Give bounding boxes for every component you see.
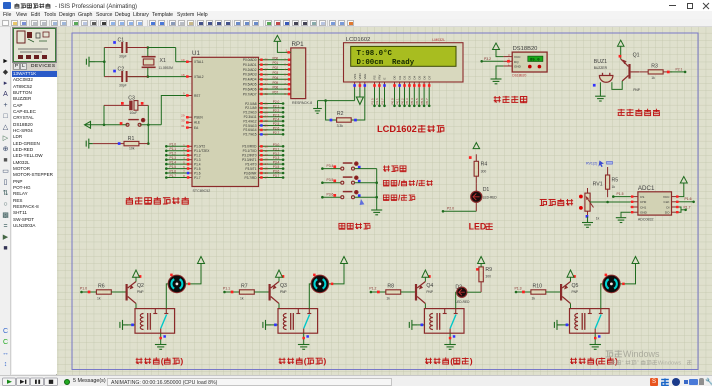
U1 P2 pins with net labels [259, 100, 285, 136]
button (reset) [126, 118, 145, 126]
svg-text:16: 16 [265, 171, 269, 175]
svg-text:12: 12 [265, 153, 269, 157]
svg-text:P1.3: P1.3 [170, 156, 177, 160]
svg-text:P2.5: P2.5 [273, 122, 280, 126]
svg-text:24: 24 [265, 115, 269, 119]
svg-text:R2: R2 [337, 111, 344, 117]
relay RL4 [570, 309, 610, 334]
svg-text:1k: 1k [240, 297, 244, 301]
svg-text:RW: RW [378, 74, 382, 79]
crystal X1 [142, 57, 156, 68]
svg-text:): ) [180, 356, 183, 366]
svg-text:U1: U1 [192, 50, 200, 57]
svg-text:Q1: Q1 [633, 53, 640, 59]
svg-text:P03: P03 [273, 71, 279, 75]
label MCU minimal system [126, 197, 133, 204]
wire LCD control and data nets [370, 88, 430, 107]
wire net P1.3 [516, 291, 531, 293]
svg-text:P1.4: P1.4 [170, 161, 177, 165]
wire relay common to ground [160, 333, 162, 344]
wire ADC VCC to power [680, 190, 684, 197]
wire button to ground bus [355, 196, 377, 198]
ground terminal (relay coil) [263, 320, 271, 330]
probe label RV1(2) blue [586, 161, 613, 168]
ADC U2 ADC0832 [638, 192, 672, 215]
MCU U1 STC89C52 [192, 57, 259, 186]
svg-text:- ISIS Professional (Animating: - ISIS Professional (Animating) [55, 4, 137, 10]
wire base Q4 [401, 291, 415, 293]
svg-text:D4: D4 [413, 75, 417, 79]
svg-text:R5: R5 [612, 178, 619, 184]
wire collector Q4 to relay [424, 304, 426, 309]
svg-text:P07: P07 [273, 91, 279, 95]
svg-text:1k: 1k [386, 297, 390, 301]
wire button to ground bus [355, 168, 377, 170]
resistor R1 [115, 141, 148, 145]
svg-text:P2.0: P2.0 [273, 100, 280, 104]
svg-text:P0.4: P0.4 [410, 98, 414, 105]
svg-text:R9: R9 [485, 267, 492, 273]
wire ADC DI DO to net P1.7 [680, 207, 682, 212]
wire base Q3 [254, 291, 268, 293]
svg-text:85.0: 85.0 [530, 59, 540, 63]
svg-text:P3.3: P3.3 [273, 156, 280, 160]
svg-text:P3.6: P3.6 [327, 193, 334, 197]
ground (buttons) [371, 210, 382, 215]
svg-text:P2.0: P2.0 [447, 206, 454, 210]
svg-text:VCC: VCC [663, 195, 670, 199]
svg-text:11: 11 [265, 149, 268, 153]
power terminal (motor M2) [341, 257, 348, 268]
LCD pins [353, 82, 430, 88]
U1 P3 pins with net labels [259, 143, 285, 180]
svg-text:LED-RED: LED-RED [455, 300, 470, 304]
power terminal (Q5) [567, 270, 574, 277]
svg-text:P3.4: P3.4 [327, 164, 334, 168]
svg-text:10uF: 10uF [130, 111, 138, 115]
svg-text:P2.4/A12: P2.4/A12 [243, 119, 256, 123]
svg-text:LCD1602: LCD1602 [377, 124, 417, 134]
motor M2 [311, 275, 329, 293]
svg-text:P3.6/WR: P3.6/WR [244, 171, 257, 175]
wire LCD power net [318, 100, 355, 102]
svg-text:300: 300 [481, 170, 487, 174]
svg-text:VCC: VCC [514, 55, 521, 59]
label minus/reset key [383, 195, 389, 201]
svg-text:P2.1: P2.1 [273, 105, 280, 109]
svg-text:PNP: PNP [633, 88, 641, 92]
svg-text:DQ: DQ [514, 60, 519, 64]
svg-text:P2.3: P2.3 [273, 113, 280, 117]
svg-text:P1.5: P1.5 [617, 192, 624, 196]
svg-text:33: 33 [265, 87, 269, 91]
svg-text:P1.0: P1.0 [80, 287, 87, 291]
svg-text:R3: R3 [651, 64, 658, 70]
svg-text:(: ( [450, 356, 453, 366]
svg-text:P1.0/T2: P1.0/T2 [194, 145, 205, 149]
capacitor C1 [104, 42, 148, 53]
svg-text:P2.6: P2.6 [375, 98, 379, 105]
ground terminal (LCD VDD down arrow) [359, 88, 361, 97]
U1 right pin names [242, 58, 257, 180]
svg-text:P2.2/A10: P2.2/A10 [243, 111, 256, 115]
relay RL3 [424, 309, 464, 334]
svg-text:GND: GND [514, 65, 522, 69]
power terminal (R9) [478, 257, 485, 267]
svg-text:28: 28 [265, 132, 269, 136]
svg-text:P2.6: P2.6 [273, 127, 280, 131]
svg-text:21: 21 [265, 102, 269, 106]
svg-text:P0.1/AD1: P0.1/AD1 [243, 63, 257, 67]
svg-text:XTAL2: XTAL2 [194, 75, 204, 79]
svg-text:P3.4/T0: P3.4/T0 [245, 162, 256, 166]
DS18B20 pins [503, 53, 512, 66]
svg-text:P0.5: P0.5 [415, 98, 419, 105]
svg-text:15: 15 [265, 167, 269, 171]
svg-text:35: 35 [265, 77, 269, 81]
svg-text:P1.6: P1.6 [194, 171, 201, 175]
svg-text:D2: D2 [455, 285, 462, 291]
wire relay coil to terminal [563, 324, 570, 326]
svg-text:23: 23 [265, 110, 269, 114]
svg-text:29: 29 [181, 113, 185, 117]
ground (ADC) [616, 218, 626, 223]
wire button 3 net [322, 196, 341, 198]
label relay (排水) [279, 358, 286, 364]
motor M4 [603, 275, 621, 293]
svg-text:D3: D3 [408, 75, 412, 79]
wire buzzer to ground [599, 82, 601, 96]
wire relay coil to terminal [271, 324, 278, 326]
power terminal (motor M4) [632, 257, 639, 268]
wire base Q5 [546, 291, 560, 293]
power terminal (RP1) [274, 35, 281, 41]
terminal (reset left arrow) [85, 121, 91, 128]
resistor R6 [96, 290, 111, 294]
wire net P1.2 [371, 291, 386, 293]
wire button to ground bus [355, 182, 377, 184]
svg-text:D1: D1 [398, 75, 402, 79]
svg-text:(: ( [304, 356, 307, 366]
svg-text:39: 39 [265, 58, 269, 62]
svg-text:P06: P06 [273, 86, 279, 90]
svg-text:VDD: VDD [358, 73, 362, 79]
svg-text:P3.2/INT0: P3.2/INT0 [242, 154, 257, 158]
watermark activate windows [606, 349, 692, 367]
ground (LCD) [313, 109, 322, 114]
svg-text:P0.2/AD2: P0.2/AD2 [243, 68, 257, 72]
svg-text:1k: 1k [612, 185, 616, 189]
svg-text:P01: P01 [273, 61, 279, 65]
power terminal (Q2) [133, 270, 140, 277]
svg-text:RESPACK-8: RESPACK-8 [292, 101, 312, 105]
ground (RV1) [582, 217, 593, 228]
svg-text:T:98.0°C: T:98.0°C [357, 49, 393, 58]
svg-text:P0.6: P0.6 [420, 98, 424, 105]
wire ADC CLK to net P1.6 [680, 201, 694, 203]
svg-text:P2.5/A13: P2.5/A13 [243, 124, 256, 128]
svg-text:P0.1: P0.1 [395, 98, 399, 105]
svg-text:ADC1: ADC1 [638, 185, 655, 192]
wire button 2 net [322, 182, 341, 184]
svg-text:LCD1602: LCD1602 [346, 37, 371, 43]
svg-text:P02: P02 [273, 66, 279, 70]
wire collector Q3 to relay [278, 304, 280, 309]
wire relay common to ground [303, 333, 305, 344]
power terminal (buzzer) [618, 40, 625, 46]
svg-text:): ) [323, 356, 326, 366]
svg-text:P2.7/A15: P2.7/A15 [243, 133, 256, 137]
svg-text:VSS: VSS [353, 74, 357, 80]
wire relay coil to terminal [128, 324, 135, 326]
wire Q1 collector to buzzer [612, 81, 622, 89]
svg-text:R8: R8 [387, 283, 394, 289]
svg-text:14: 14 [265, 162, 269, 166]
svg-text:P1.6: P1.6 [685, 197, 692, 201]
svg-text:30pF: 30pF [119, 55, 127, 59]
power terminal (Q4) [422, 270, 429, 277]
svg-text:P1.0: P1.0 [170, 143, 177, 147]
wire emitter Q5 to power [570, 277, 572, 281]
svg-text:P1.1: P1.1 [170, 147, 177, 151]
svg-text:36: 36 [265, 72, 269, 76]
wire RP1 pin1 to power [277, 41, 290, 52]
svg-text:P3.3/INT1: P3.3/INT1 [242, 158, 257, 162]
svg-text:P00: P00 [273, 56, 279, 60]
transistor Q4 PNP [415, 282, 426, 304]
svg-text:P3.0/RXD: P3.0/RXD [242, 145, 257, 149]
svg-text:26: 26 [265, 124, 269, 128]
svg-text:PNP: PNP [280, 290, 287, 294]
svg-text:D:00cm Ready: D:00cm Ready [357, 59, 415, 67]
button K3 [341, 191, 358, 199]
resistor pack RP1 RESPACK-8 [291, 48, 306, 99]
svg-text:Windows: Windows [658, 361, 682, 367]
wire relay NO contact to LED [456, 292, 461, 308]
ground (relay) [590, 345, 602, 350]
svg-text:P2.7: P2.7 [273, 131, 280, 135]
transistor Q3 PNP [269, 282, 280, 304]
resistor R4 [474, 154, 478, 183]
buzzer BUZ1 [599, 73, 613, 82]
resistor R10 [531, 290, 546, 294]
svg-text:LED: LED [469, 222, 487, 232]
svg-text:P1.3: P1.3 [194, 158, 201, 162]
svg-text:P1.3: P1.3 [515, 287, 522, 291]
svg-text:): ) [470, 356, 473, 366]
wire collector Q2 to relay [135, 304, 137, 309]
svg-text:XTAL1: XTAL1 [194, 60, 204, 64]
svg-text:RV1: RV1 [593, 182, 603, 188]
resistor R3 [639, 70, 672, 74]
button K1 [341, 162, 358, 170]
svg-text:BUZZER: BUZZER [594, 66, 608, 70]
wire base Q2 [111, 291, 125, 293]
svg-text:R10: R10 [533, 283, 543, 289]
label relay (冲洗) [570, 358, 577, 364]
wire relay NO contact to motor [166, 284, 168, 309]
svg-text:P1.5: P1.5 [194, 167, 201, 171]
svg-text:D1: D1 [483, 187, 490, 193]
svg-text:P3.7/RD: P3.7/RD [244, 176, 257, 180]
svg-text:P1.4: P1.4 [194, 162, 201, 166]
svg-text:DO: DO [665, 211, 670, 215]
svg-text:PNP: PNP [572, 290, 579, 294]
svg-text:P2.1/A9: P2.1/A9 [245, 106, 257, 110]
LCD pin names [353, 73, 432, 79]
ground (relay) [155, 345, 167, 350]
svg-text:P05: P05 [273, 81, 279, 85]
svg-text:P3.6: P3.6 [273, 170, 280, 174]
svg-text:10k: 10k [129, 147, 135, 151]
svg-text:P3.2: P3.2 [484, 57, 491, 61]
ground (relay) [298, 345, 310, 350]
capacitor C2 [104, 71, 148, 82]
ground (DS18B20) [491, 78, 502, 84]
svg-text:P1.1: P1.1 [223, 287, 230, 291]
svg-text:E: E [383, 78, 387, 80]
svg-text:R4: R4 [481, 162, 488, 168]
wire collector Q5 to relay [570, 304, 572, 309]
wire net P1.0 [82, 291, 97, 293]
wire LCD VSS to ground [354, 88, 356, 101]
svg-text:P04: P04 [273, 76, 279, 80]
wire relay coil to terminal [417, 324, 424, 326]
wire motor to power [186, 267, 201, 284]
power terminal (DS18B20) [493, 43, 500, 50]
svg-text:P3.5/T1: P3.5/T1 [245, 167, 256, 171]
svg-text:(: ( [161, 356, 164, 366]
svg-text:P1.7: P1.7 [170, 174, 177, 178]
power terminal (motor M1) [198, 257, 205, 268]
svg-text:ADC0832: ADC0832 [638, 218, 654, 222]
svg-text:P1.6: P1.6 [170, 169, 177, 173]
svg-text:P2.5: P2.5 [370, 98, 374, 105]
label relay (进水) [136, 358, 143, 364]
svg-text:P3.0: P3.0 [273, 143, 280, 147]
transistor Q5 PNP [560, 282, 571, 304]
wire motor to power [329, 267, 344, 284]
svg-text:10: 10 [265, 144, 269, 148]
wire LED to net P2.0 [443, 210, 476, 212]
label plus/start/pause key [383, 181, 389, 187]
svg-text:P2.2: P2.2 [273, 109, 280, 113]
svg-text:RP1: RP1 [292, 41, 305, 48]
svg-text:R7: R7 [241, 283, 248, 289]
transistor Q2 PNP [126, 282, 137, 304]
wire D2 to R9 [467, 291, 481, 293]
svg-text:P0.3: P0.3 [405, 98, 409, 105]
svg-text:13: 13 [265, 158, 269, 162]
DS18B20 temperature module [512, 52, 547, 72]
svg-text:DS18B20: DS18B20 [513, 46, 538, 52]
svg-text:ALE: ALE [194, 121, 200, 125]
wire button 1 net [322, 168, 341, 170]
wire relay NO contact to motor [601, 284, 603, 309]
svg-text:P0.0: P0.0 [390, 98, 394, 105]
wire DS18B20 nets [496, 50, 503, 57]
svg-text:P0.7: P0.7 [425, 98, 429, 105]
svg-text:P1.7: P1.7 [194, 176, 201, 180]
svg-text:CH0: CH0 [640, 200, 646, 204]
wire emitter Q4 to power [424, 277, 426, 281]
svg-text:P0.4/AD4: P0.4/AD4 [243, 78, 257, 82]
svg-text:P1.2: P1.2 [369, 287, 376, 291]
svg-text:3.3k: 3.3k [337, 124, 344, 128]
ground (relay) [444, 345, 456, 350]
svg-text:P0.5/AD5: P0.5/AD5 [243, 83, 257, 87]
button K2 [341, 176, 358, 184]
svg-text:PNP: PNP [426, 290, 433, 294]
svg-text:CH1: CH1 [640, 205, 646, 209]
wire RV1 wiper to ADC CH0 [590, 201, 630, 203]
svg-text:(: ( [595, 356, 598, 366]
svg-text:P3.5: P3.5 [327, 178, 334, 182]
svg-text:1k: 1k [532, 297, 536, 301]
svg-text:38: 38 [265, 63, 269, 67]
U1 P1 pins with net labels [165, 143, 210, 180]
svg-text:P3.1: P3.1 [273, 147, 280, 151]
wire R3 to net P2.1 [670, 71, 685, 73]
svg-text:22: 22 [265, 106, 269, 110]
svg-text:P1.2: P1.2 [170, 152, 177, 156]
wire ground bus (buttons) [376, 169, 378, 210]
svg-text:C3: C3 [128, 96, 135, 102]
svg-text:C2: C2 [118, 67, 125, 73]
svg-text:P0.3/AD3: P0.3/AD3 [243, 73, 257, 77]
wire motor to power [620, 267, 635, 284]
svg-text:D2: D2 [403, 75, 407, 79]
svg-text:32: 32 [265, 92, 269, 96]
svg-text:30pF: 30pF [119, 84, 127, 88]
potentiometer RV1 [585, 188, 594, 217]
wire relay common to ground [449, 333, 451, 344]
svg-text:CLK: CLK [663, 200, 670, 204]
svg-text:R1: R1 [128, 136, 135, 142]
label key settings [339, 223, 346, 229]
ground (buzzer) [595, 96, 606, 101]
svg-text:1k: 1k [596, 217, 600, 221]
wire net P1.1 [225, 291, 240, 293]
svg-text:1k: 1k [97, 297, 101, 301]
U1 left pins XTAL1 XTAL2 RST PSEN ALE EA [181, 58, 204, 130]
svg-text:C1: C1 [118, 38, 125, 44]
wire buzzer collector/emitter nets [620, 46, 622, 59]
svg-text:P0.7/AD7: P0.7/AD7 [243, 92, 257, 96]
svg-text:P2.1: P2.1 [676, 67, 683, 71]
LED D2 LED-RED [457, 287, 467, 297]
label relay (加热) [425, 358, 432, 364]
svg-text:P3.4: P3.4 [273, 161, 280, 165]
wire R1 to terminal [93, 143, 115, 145]
svg-text:P1.2: P1.2 [194, 154, 201, 158]
svg-text:X1: X1 [160, 58, 166, 64]
wire ADC GND to ground [621, 212, 630, 218]
svg-text:P2.0/A8: P2.0/A8 [245, 102, 257, 106]
wire emitter Q2 to power [135, 277, 137, 281]
svg-text:LM032L: LM032L [432, 38, 445, 42]
ground terminal (relay coil) [554, 320, 562, 330]
wire relay NO contact to motor [309, 284, 311, 309]
svg-text:P1.1/T2EX: P1.1/T2EX [194, 149, 210, 153]
svg-text:GND: GND [640, 211, 648, 215]
label buzzer alarm [618, 109, 625, 116]
svg-text:31: 31 [181, 124, 185, 128]
resistor R9 [479, 267, 483, 282]
svg-text:D5: D5 [417, 75, 421, 79]
svg-text:D0: D0 [393, 75, 397, 79]
ADC pins [630, 195, 679, 215]
